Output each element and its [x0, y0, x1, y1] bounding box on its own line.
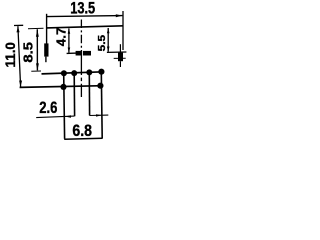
column C line — [88, 73, 90, 116]
dimension 11.0 up arrow — [17, 26, 20, 32]
extension line left (body left edge) — [46, 14, 48, 44]
pin row line 2 — [20, 86, 104, 88]
svg-text:6.8: 6.8 — [72, 122, 92, 140]
dimension 13.5 line — [47, 16, 123, 17]
dimension 5.5 line — [107, 28, 109, 52]
svg-text:2.6: 2.6 — [39, 99, 57, 117]
svg-text:13.5: 13.5 — [70, 0, 95, 17]
right pin bar — [118, 53, 123, 62]
hole A row1 — [61, 70, 67, 76]
right mirror arrow — [96, 114, 102, 116]
hole C row1 — [86, 69, 92, 75]
dimension 2.6 arrow — [65, 115, 71, 118]
dimension 8.5 line — [36, 29, 38, 70]
svg-text:11.0: 11.0 — [2, 42, 18, 68]
dimension 8.5 top tick — [28, 27, 44, 29]
right pin stub — [119, 61, 121, 67]
terminal tab notch — [82, 51, 83, 56]
dimension 11.0 line — [18, 26, 21, 86]
dimension 8.5 down arrow — [36, 63, 39, 70]
left pin bar — [44, 43, 48, 56]
dimension 5.5 down arrow — [107, 47, 110, 53]
right pin tick — [114, 57, 126, 59]
extension line right — [122, 11, 124, 50]
hole A row2 — [60, 84, 66, 90]
body bottom line right — [107, 51, 127, 53]
hole B row1 — [71, 70, 77, 76]
dimension 5.5 up arrow — [107, 28, 110, 34]
body top line — [47, 26, 124, 28]
hole D row2 — [97, 83, 103, 89]
right mirror dimension line — [89, 114, 108, 116]
column A line — [63, 74, 66, 139]
center line lower part — [80, 50, 82, 97]
left pin stub — [45, 57, 47, 63]
dimension 4.7 up arrow — [68, 28, 71, 34]
hole D row1 — [98, 69, 104, 75]
dimension 2.6 line — [36, 116, 74, 118]
svg-text:4.7: 4.7 — [54, 28, 69, 47]
dimension 4.7 line — [68, 28, 70, 52]
right pin upper line — [119, 44, 121, 53]
pin row line 1 — [42, 72, 104, 74]
dimension 11.0 down arrow — [19, 81, 22, 87]
body bottom line middle — [67, 52, 91, 55]
dimension 11.0 top tick — [14, 24, 23, 26]
column B line — [73, 73, 75, 116]
dimension 6.8 line — [64, 137, 102, 140]
svg-text:8.5: 8.5 — [22, 42, 36, 63]
column D line — [100, 72, 103, 138]
dimension 13.5 right arrow — [116, 14, 123, 17]
svg-text:5.5: 5.5 — [96, 35, 108, 52]
dimension 8.5 up arrow — [36, 29, 39, 37]
center terminal tab — [76, 51, 91, 56]
dimension 4.7 down arrow — [68, 48, 71, 54]
dimension 8.5 bottom tick — [31, 70, 41, 72]
center dash-dot line — [80, 20, 82, 51]
